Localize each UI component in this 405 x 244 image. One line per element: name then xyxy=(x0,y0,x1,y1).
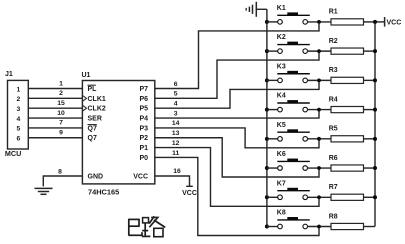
svg-text:U1: U1 xyxy=(82,72,91,79)
svg-text:15: 15 xyxy=(57,100,65,107)
svg-text:K5: K5 xyxy=(277,122,286,129)
svg-text:12: 12 xyxy=(172,140,180,147)
svg-text:16: 16 xyxy=(173,168,181,175)
svg-text:P3: P3 xyxy=(139,125,148,132)
svg-text:P1: P1 xyxy=(139,145,148,152)
svg-text:P4: P4 xyxy=(139,115,148,122)
svg-text:K2: K2 xyxy=(277,34,286,41)
svg-text:11: 11 xyxy=(172,150,179,157)
svg-text:P6: P6 xyxy=(139,96,148,103)
svg-text:VCC: VCC xyxy=(182,190,197,197)
svg-text:R2: R2 xyxy=(329,38,338,45)
svg-text:9: 9 xyxy=(59,130,63,137)
svg-text:R4: R4 xyxy=(329,96,338,103)
svg-text:P2: P2 xyxy=(139,135,148,142)
svg-text:K8: K8 xyxy=(277,210,286,217)
svg-text:P0: P0 xyxy=(139,155,148,162)
svg-text:1: 1 xyxy=(59,80,63,87)
svg-text:VCC: VCC xyxy=(387,19,402,26)
svg-text:74HC165: 74HC165 xyxy=(88,187,119,196)
svg-text:5: 5 xyxy=(174,91,178,98)
svg-text:GND: GND xyxy=(88,173,104,180)
svg-text:14: 14 xyxy=(172,120,180,127)
svg-text:K6: K6 xyxy=(277,151,286,158)
svg-text:3: 3 xyxy=(17,106,21,113)
svg-text:R3: R3 xyxy=(329,67,338,74)
svg-text:4: 4 xyxy=(17,116,21,123)
svg-text:Q7: Q7 xyxy=(88,125,97,132)
svg-text:PL: PL xyxy=(88,86,98,93)
svg-text:R8: R8 xyxy=(329,213,338,220)
svg-text:R7: R7 xyxy=(329,184,338,191)
svg-text:13: 13 xyxy=(172,130,180,137)
svg-text:K7: K7 xyxy=(277,180,286,187)
svg-text:7: 7 xyxy=(59,120,63,127)
svg-text:J1: J1 xyxy=(5,71,13,78)
svg-text:MCU: MCU xyxy=(5,149,21,158)
svg-text:K1: K1 xyxy=(277,5,286,12)
svg-text:3: 3 xyxy=(174,110,178,117)
svg-text:4: 4 xyxy=(174,101,178,108)
svg-text:R5: R5 xyxy=(329,126,338,133)
svg-text:Q7: Q7 xyxy=(88,135,97,142)
svg-text:6: 6 xyxy=(17,136,21,143)
svg-text:10: 10 xyxy=(57,110,65,117)
svg-text:K4: K4 xyxy=(277,93,286,100)
svg-text:VCC: VCC xyxy=(133,173,148,180)
svg-text:2: 2 xyxy=(17,96,21,103)
svg-text:SER: SER xyxy=(88,115,102,122)
svg-text:2: 2 xyxy=(59,90,63,97)
svg-text:P5: P5 xyxy=(139,106,148,113)
svg-text:K3: K3 xyxy=(277,63,286,70)
svg-text:8: 8 xyxy=(58,168,62,175)
svg-text:6: 6 xyxy=(174,81,178,88)
svg-text:CLK1: CLK1 xyxy=(88,96,106,103)
svg-text:1: 1 xyxy=(17,86,21,93)
svg-text:R6: R6 xyxy=(329,155,338,162)
svg-text:P7: P7 xyxy=(139,86,148,93)
svg-text:CLK2: CLK2 xyxy=(88,106,106,113)
svg-text:R1: R1 xyxy=(329,9,338,16)
svg-text:5: 5 xyxy=(17,126,21,133)
